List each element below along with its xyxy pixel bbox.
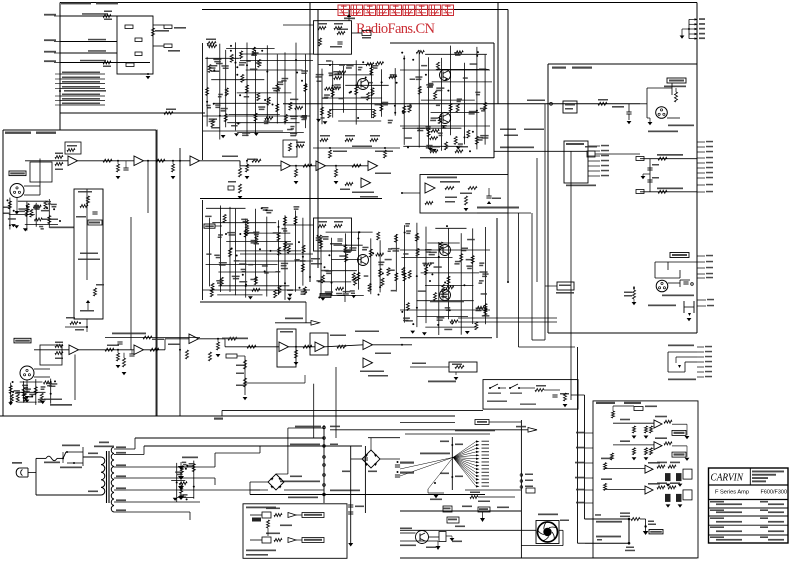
svg-text:CARVIN: CARVIN xyxy=(711,473,744,484)
svg-text:F600/F300: F600/F300 xyxy=(761,490,788,496)
svg-text:F Series Amp: F Series Amp xyxy=(715,490,749,496)
svg-text:RadioFans.CN: RadioFans.CN xyxy=(356,21,436,37)
